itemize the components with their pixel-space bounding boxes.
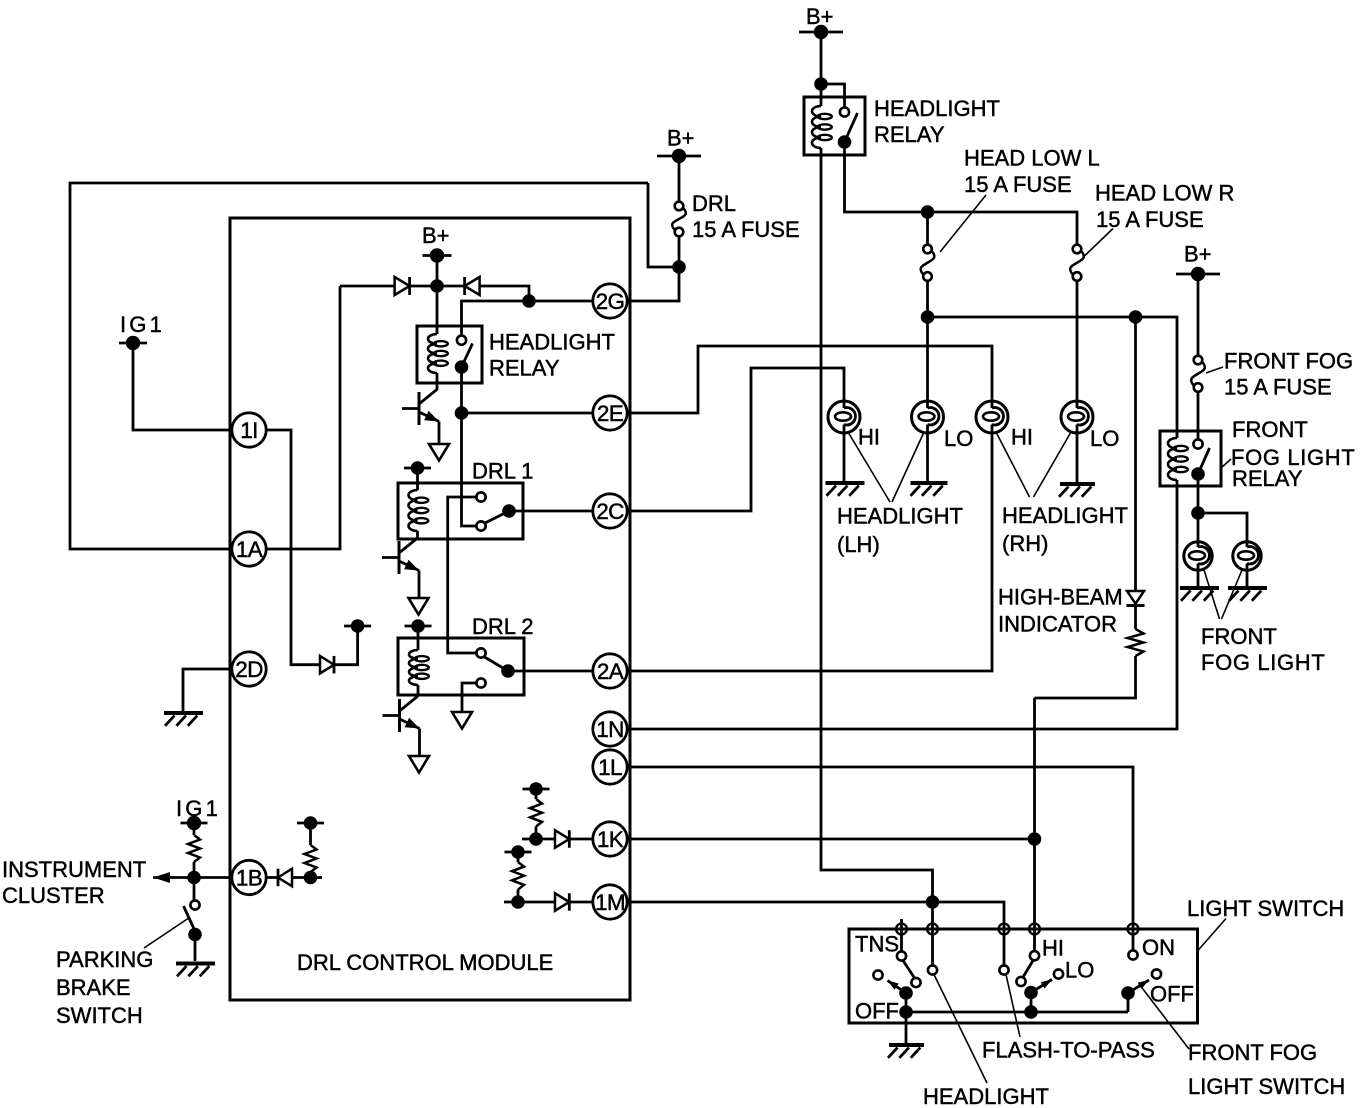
svg-text:LO: LO (944, 426, 973, 451)
svg-text:SWITCH: SWITCH (56, 1003, 143, 1028)
svg-text:HEADLIGHT: HEADLIGHT (874, 96, 1000, 121)
svg-text:HI: HI (1042, 936, 1064, 961)
svg-text:15 A FUSE: 15 A FUSE (1224, 375, 1332, 400)
svg-text:FRONT: FRONT (1232, 417, 1308, 442)
svg-text:HEAD LOW R: HEAD LOW R (1095, 181, 1234, 206)
svg-text:1K: 1K (597, 827, 624, 852)
svg-text:LIGHT SWITCH: LIGHT SWITCH (1188, 1074, 1345, 1099)
svg-text:ON: ON (1142, 935, 1175, 960)
svg-text:DRL CONTROL MODULE: DRL CONTROL MODULE (297, 950, 553, 975)
svg-text:1B: 1B (236, 865, 262, 890)
svg-text:1N: 1N (596, 717, 624, 742)
svg-text:PARKING: PARKING (56, 947, 153, 972)
svg-text:DRL: DRL (692, 191, 736, 216)
svg-text:2D: 2D (235, 657, 263, 682)
svg-text:1I: 1I (240, 418, 258, 443)
svg-text:OFF: OFF (1150, 982, 1194, 1007)
svg-text:B+: B+ (422, 223, 450, 248)
svg-text:FRONT FOG: FRONT FOG (1188, 1040, 1317, 1065)
svg-text:15 A FUSE: 15 A FUSE (964, 172, 1072, 197)
svg-text:INSTRUMENT: INSTRUMENT (2, 857, 146, 882)
svg-text:15 A FUSE: 15 A FUSE (692, 217, 800, 242)
svg-text:INDICATOR: INDICATOR (998, 612, 1117, 637)
svg-text:DRL 2: DRL 2 (472, 614, 534, 639)
svg-text:TNS: TNS (855, 932, 899, 957)
svg-text:FRONT FOG: FRONT FOG (1224, 349, 1353, 374)
svg-text:2E: 2E (597, 401, 624, 426)
svg-text:HEADLIGHT: HEADLIGHT (923, 1084, 1049, 1108)
svg-text:(LH): (LH) (837, 532, 880, 557)
svg-text:RELAY: RELAY (874, 122, 945, 147)
svg-text:LO: LO (1065, 958, 1094, 983)
svg-text:(RH): (RH) (1002, 531, 1048, 556)
svg-text:B+: B+ (806, 4, 834, 29)
svg-text:LO: LO (1090, 426, 1119, 451)
svg-text:HEAD LOW L: HEAD LOW L (964, 146, 1100, 171)
svg-text:2G: 2G (596, 289, 625, 314)
svg-text:RELAY: RELAY (1232, 466, 1303, 491)
svg-text:HEADLIGHT: HEADLIGHT (489, 330, 615, 355)
svg-text:2C: 2C (596, 499, 624, 524)
svg-text:B+: B+ (667, 126, 695, 151)
svg-text:HEADLIGHT: HEADLIGHT (837, 504, 963, 529)
svg-text:LIGHT SWITCH: LIGHT SWITCH (1187, 896, 1344, 921)
svg-text:OFF: OFF (855, 999, 899, 1024)
svg-text:1A: 1A (236, 537, 263, 562)
svg-text:B+: B+ (1184, 242, 1212, 267)
svg-text:FRONT: FRONT (1201, 624, 1277, 649)
svg-text:CLUSTER: CLUSTER (2, 883, 105, 908)
svg-text:RELAY: RELAY (489, 356, 560, 381)
svg-text:BRAKE: BRAKE (56, 975, 131, 1000)
svg-text:HEADLIGHT: HEADLIGHT (1002, 503, 1128, 528)
svg-text:FOG LIGHT: FOG LIGHT (1201, 650, 1325, 675)
svg-text:1L: 1L (598, 755, 622, 780)
svg-text:FLASH-TO-PASS: FLASH-TO-PASS (982, 1038, 1155, 1063)
svg-text:HIGH-BEAM: HIGH-BEAM (998, 585, 1123, 610)
svg-text:DRL 1: DRL 1 (472, 459, 534, 484)
svg-text:HI: HI (858, 425, 880, 450)
svg-text:HI: HI (1011, 425, 1033, 450)
svg-text:1M: 1M (595, 890, 625, 915)
svg-text:IG1: IG1 (120, 312, 165, 337)
svg-text:IG1: IG1 (176, 796, 221, 821)
svg-text:2A: 2A (597, 659, 624, 684)
